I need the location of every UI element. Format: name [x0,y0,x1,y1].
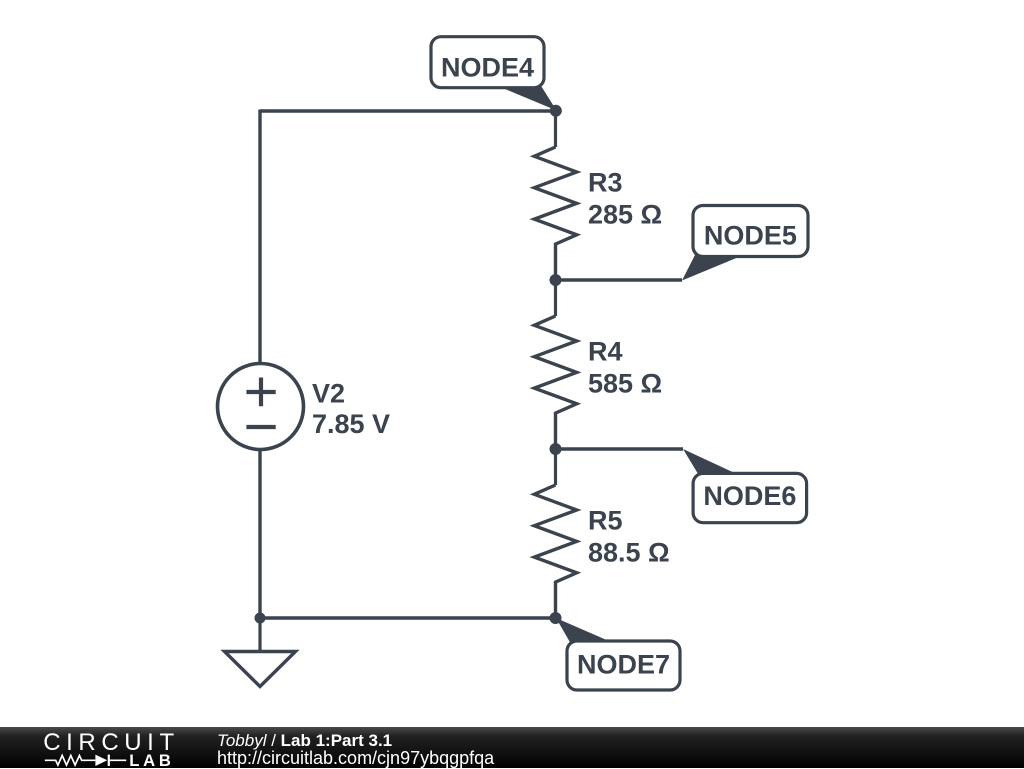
svg-text:NODE4: NODE4 [441,52,534,82]
wire stub to NODE6 [556,447,683,450]
wire V2 bottom lead [258,449,261,618]
svg-text:NODE7: NODE7 [577,649,670,679]
wire stub to NODE5 [556,278,682,281]
junction dot NODE5 [550,274,562,286]
svg-text:7.85 V: 7.85 V [312,409,390,439]
svg-text:585 Ω: 585 Ω [588,368,662,398]
resistor R4 [534,280,576,449]
junction dot NODE6 [550,443,562,455]
svg-text:NODE6: NODE6 [703,481,796,511]
wire left vertical to V2 top [258,110,261,366]
voltage source V2 [218,364,304,450]
junction dot ground [255,613,266,624]
node NODE5 flag [682,206,808,281]
ground [225,618,296,687]
junction dot NODE4 [550,105,562,117]
svg-text:NODE5: NODE5 [704,220,797,250]
resistor R3 [534,111,576,280]
svg-text:LAB: LAB [129,751,174,768]
label V2 value [312,379,390,440]
footer url [217,748,494,769]
junction dot NODE7 right [550,612,562,624]
svg-text:285 Ω: 285 Ω [588,199,662,229]
svg-text:R3: R3 [588,167,623,197]
label R3 value [588,167,662,229]
node NODE4 flag [431,37,557,111]
svg-text:R4: R4 [588,336,623,366]
CircuitLab logo [0,727,200,768]
svg-text:V2: V2 [312,379,345,409]
label R4 value [588,336,662,398]
svg-text:88.5 Ω: 88.5 Ω [588,537,670,567]
node NODE7 flag [556,618,680,690]
label R5 value [588,505,670,567]
footer title [217,731,392,751]
node NODE6 flag [683,449,807,523]
wire top rail NODE4 [260,109,556,112]
footer bar [0,727,1024,768]
resistor R5 [534,449,576,618]
svg-text:R5: R5 [588,505,623,535]
wire bottom rail NODE7 [260,616,556,619]
